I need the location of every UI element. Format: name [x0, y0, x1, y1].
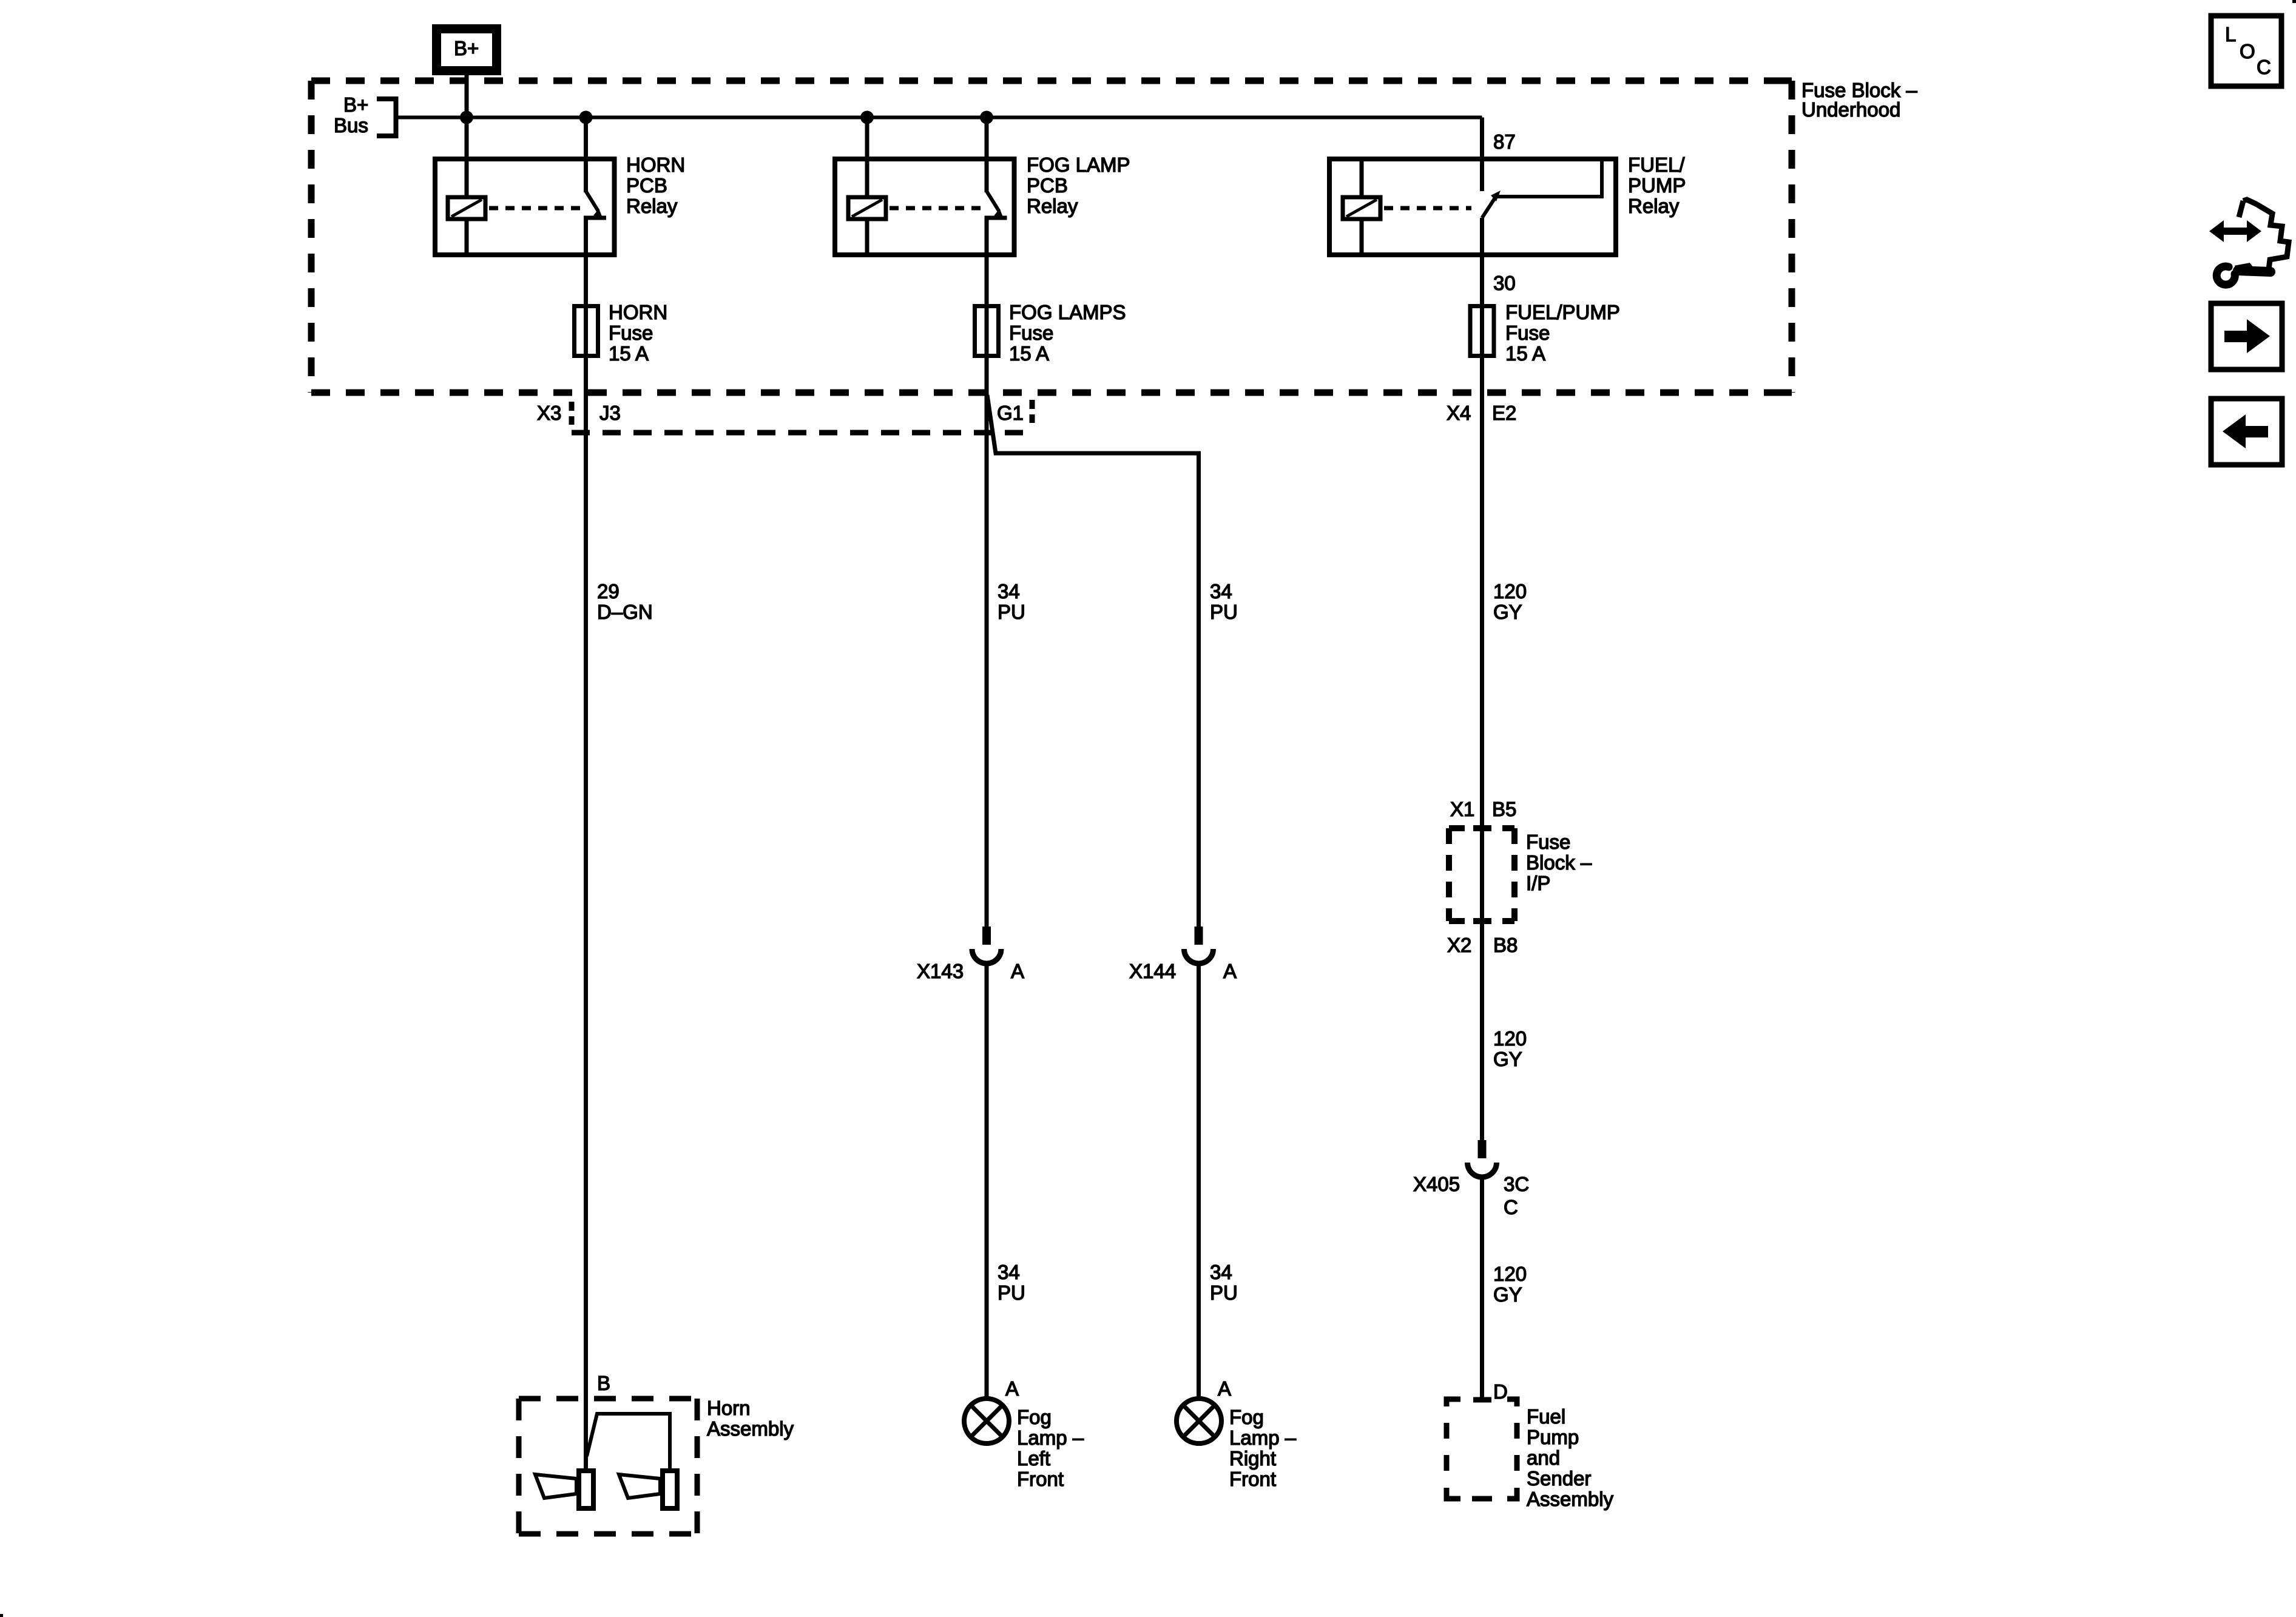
lamp fog right — [1177, 1399, 1221, 1443]
wire X405 to fuel pump — [1480, 1177, 1484, 1399]
svg-text:FOG LAMP: FOG LAMP — [1027, 154, 1130, 176]
fuse block I/P tick top — [1473, 825, 1491, 831]
relay K3 switch with 87 elbow — [1482, 160, 1602, 218]
svg-text:15 A: 15 A — [609, 342, 649, 365]
svg-text:120: 120 — [1493, 1027, 1527, 1050]
fuel pump terminal T bar — [1473, 1397, 1491, 1403]
wire label 34 PU left — [998, 580, 1025, 623]
svg-text:Block –: Block – — [1526, 851, 1592, 874]
svg-text:30: 30 — [1493, 272, 1516, 294]
svg-text:B+: B+ — [343, 93, 368, 116]
svg-text:PU: PU — [998, 1281, 1025, 1304]
fuel pump label — [1527, 1405, 1614, 1510]
fuel pump and sender dashed box — [1447, 1399, 1517, 1499]
wire fog right X144 to lamp — [1197, 964, 1201, 1400]
fuse block I/P dashed box — [1449, 828, 1514, 921]
lamp fog right label — [1229, 1406, 1297, 1490]
svg-text:D–GN: D–GN — [597, 601, 653, 623]
corner mark top right — [2292, 0, 2296, 3]
svg-text:Lamp –: Lamp – — [1229, 1426, 1297, 1449]
svg-text:FUEL/PUMP: FUEL/PUMP — [1505, 301, 1620, 323]
svg-text:GY: GY — [1493, 601, 1522, 623]
icon LOC box — [2211, 16, 2281, 86]
wire bus corner down to fuel relay 87 — [1480, 118, 1484, 192]
icon arrow back — [2211, 399, 2282, 465]
relay K1 label — [626, 154, 685, 217]
fuse block underhood label — [1801, 79, 1917, 121]
relay K2 label — [1027, 154, 1130, 217]
svg-text:HORN: HORN — [609, 301, 667, 323]
wire fog switch down through fuse to X143 — [985, 218, 989, 927]
relay K1 switch — [584, 118, 606, 220]
relay K1 HORN PCB Relay box — [435, 159, 615, 255]
relay K2 switch — [985, 118, 1007, 220]
fuse block I/P tick bottom — [1473, 918, 1491, 924]
svg-text:Right: Right — [1229, 1447, 1276, 1470]
svg-text:C: C — [2257, 56, 2271, 78]
svg-text:X144: X144 — [1129, 960, 1176, 982]
svg-text:X143: X143 — [917, 960, 964, 982]
svg-text:Sender: Sender — [1527, 1467, 1591, 1490]
wire horn branch to second horn — [587, 1414, 670, 1471]
icon arrow forward — [2211, 303, 2282, 370]
svg-text:34: 34 — [998, 1261, 1020, 1283]
svg-text:PCB: PCB — [1027, 174, 1068, 197]
svg-text:X405: X405 — [1413, 1173, 1460, 1195]
lamp fog left — [964, 1399, 1009, 1443]
fuse F3 label — [1505, 301, 1620, 365]
svg-text:15 A: 15 A — [1505, 342, 1545, 365]
svg-text:Bus: Bus — [334, 114, 368, 137]
svg-text:120: 120 — [1493, 580, 1527, 603]
wire label 34 PU right — [1210, 580, 1238, 623]
svg-text:PU: PU — [1210, 1281, 1238, 1304]
svg-text:B+: B+ — [454, 37, 479, 59]
fuse F1 label — [609, 301, 667, 365]
svg-text:A: A — [1011, 960, 1024, 982]
relay K3 coil — [1343, 197, 1380, 255]
svg-text:A: A — [1223, 960, 1237, 982]
wire fog branch to right fog lamp — [987, 395, 1199, 927]
horn 1 — [535, 1471, 593, 1508]
relay K3 FUEL/PUMP Relay box — [1329, 159, 1616, 255]
svg-text:Horn: Horn — [707, 1397, 751, 1419]
svg-text:D: D — [1493, 1380, 1508, 1403]
svg-text:X2: X2 — [1447, 934, 1471, 956]
svg-text:B: B — [597, 1372, 610, 1394]
wire label 29 D-GN — [597, 580, 653, 623]
icon service information — [2209, 200, 2289, 285]
svg-text:Fog: Fog — [1229, 1406, 1264, 1428]
connector X405 inline — [1468, 1140, 1497, 1177]
svg-text:3C: 3C — [1504, 1173, 1529, 1195]
svg-text:34: 34 — [998, 580, 1020, 603]
fuse block I/P label — [1526, 831, 1592, 894]
svg-text:Assembly: Assembly — [1527, 1488, 1614, 1510]
svg-text:J3: J3 — [599, 402, 621, 424]
relay K3 coil-switch dashed link — [1384, 206, 1471, 211]
B+ Bus label — [334, 93, 368, 137]
node junction dot at fog coil wire — [860, 111, 874, 124]
svg-text:87: 87 — [1493, 130, 1516, 153]
relay K2 coil wire from bus — [865, 118, 869, 198]
svg-text:34: 34 — [1210, 580, 1232, 603]
connector X144 inline — [1184, 927, 1214, 964]
svg-text:Front: Front — [1229, 1468, 1276, 1490]
relay K1 coil — [448, 197, 485, 255]
svg-text:GY: GY — [1493, 1283, 1522, 1306]
svg-text:34: 34 — [1210, 1261, 1232, 1283]
svg-text:FOG LAMPS: FOG LAMPS — [1009, 301, 1126, 323]
B+ Bus terminal bracket — [377, 99, 396, 136]
svg-text:PUMP: PUMP — [1628, 174, 1686, 197]
connector X143 inline — [972, 927, 1001, 964]
wire fuel switch down through fuse to X405 — [1480, 218, 1484, 1140]
svg-text:Relay: Relay — [626, 195, 678, 217]
corner mark bottom left — [0, 1614, 3, 1617]
fuse F2 FOG LAMPS Fuse 15A — [975, 306, 999, 356]
svg-text:B8: B8 — [1493, 934, 1518, 956]
relay K2 FOG LAMP PCB Relay box — [835, 159, 1015, 255]
svg-text:Fuse: Fuse — [609, 322, 653, 344]
fuse F1 HORN Fuse 15A — [575, 306, 598, 356]
horn 2 — [619, 1471, 677, 1508]
svg-text:X3: X3 — [537, 402, 561, 424]
svg-text:Fuse: Fuse — [1009, 322, 1053, 344]
svg-text:X1: X1 — [1450, 798, 1474, 820]
svg-text:Relay: Relay — [1628, 195, 1680, 217]
node junction dot at fog switch wire — [980, 111, 993, 124]
horn assembly dashed box — [519, 1399, 697, 1534]
connector row X3/J3 dashed strip — [572, 400, 1032, 433]
svg-text:A: A — [1218, 1377, 1231, 1400]
svg-text:120: 120 — [1493, 1263, 1527, 1285]
svg-text:C: C — [1504, 1196, 1518, 1218]
wire label 120 GY upper — [1493, 580, 1527, 623]
svg-text:GY: GY — [1493, 1048, 1522, 1070]
svg-text:PU: PU — [998, 601, 1025, 623]
svg-text:PCB: PCB — [626, 174, 667, 197]
wire label 120 GY middle — [1493, 1027, 1527, 1070]
svg-text:HORN: HORN — [626, 154, 685, 176]
svg-text:Left: Left — [1017, 1447, 1050, 1470]
svg-text:Fuel: Fuel — [1527, 1405, 1565, 1428]
svg-text:FUEL/: FUEL/ — [1628, 154, 1685, 176]
svg-text:B5: B5 — [1492, 798, 1516, 820]
svg-text:Assembly: Assembly — [707, 1417, 794, 1440]
svg-text:A: A — [1005, 1377, 1019, 1400]
wire B+ feed to horn relay coil — [465, 69, 469, 197]
svg-text:and: and — [1527, 1447, 1560, 1469]
power feed B+ box — [437, 29, 497, 71]
svg-text:Underhood: Underhood — [1801, 98, 1900, 121]
lamp fog left label — [1017, 1406, 1084, 1490]
svg-text:15 A: 15 A — [1009, 342, 1049, 365]
svg-text:Fuse: Fuse — [1526, 831, 1570, 853]
relay K2 coil — [848, 197, 886, 255]
wire label 34 PU right lower — [1210, 1261, 1238, 1304]
relay K3 label — [1628, 154, 1686, 217]
wire fog left X143 to lamp — [985, 964, 989, 1400]
wire horn switch to fuse and down to horn assembly — [584, 218, 588, 1471]
relay K2 coil-switch dashed link — [890, 206, 981, 211]
svg-text:E2: E2 — [1492, 402, 1516, 424]
svg-text:I/P: I/P — [1526, 872, 1550, 894]
svg-text:Pump: Pump — [1527, 1426, 1579, 1448]
relay K3 coil wire stub — [1360, 159, 1364, 197]
wire B+ bus — [396, 116, 1482, 120]
horn assembly label — [707, 1397, 794, 1440]
svg-text:PU: PU — [1210, 601, 1238, 623]
node junction dot at B+ feed — [460, 111, 473, 124]
svg-text:G1: G1 — [997, 402, 1024, 424]
fuse F2 label — [1009, 301, 1126, 365]
svg-text:O: O — [2240, 40, 2255, 62]
svg-text:X4: X4 — [1447, 402, 1471, 424]
relay K1 coil-switch dashed link — [489, 206, 580, 211]
fuse block underhood dashed box — [311, 81, 1792, 393]
wire label 34 PU left lower — [998, 1261, 1025, 1304]
svg-text:Lamp –: Lamp – — [1017, 1426, 1084, 1449]
svg-text:Fuse: Fuse — [1505, 322, 1550, 344]
fuse F3 FUEL/PUMP Fuse 15A — [1470, 306, 1494, 356]
node junction dot at horn switch wire — [579, 111, 593, 124]
svg-text:L: L — [2225, 23, 2236, 46]
wire label 120 GY lower — [1493, 1263, 1527, 1306]
svg-text:Fog: Fog — [1017, 1406, 1052, 1428]
svg-text:Front: Front — [1017, 1468, 1064, 1490]
svg-text:29: 29 — [597, 580, 620, 603]
svg-text:Relay: Relay — [1027, 195, 1078, 217]
